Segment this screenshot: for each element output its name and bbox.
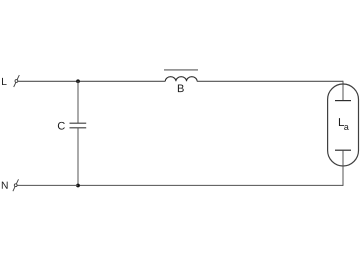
lamp label La subscript a — [344, 125, 349, 130]
junction top node — [76, 79, 80, 83]
node L (label) — [2, 78, 7, 85]
inductor B (choke with core line) — [164, 70, 198, 81]
value label C — [58, 122, 65, 130]
wire inductor to lamp corner — [197, 80, 343, 82]
lamp La envelope — [328, 84, 359, 166]
terminal N (circle with slash) — [13, 179, 19, 191]
capacitor C — [70, 123, 87, 128]
wire lamp bottom electrode down to corner — [342, 150, 344, 186]
wire junction to N terminal — [18, 184, 79, 186]
wire junction to inductor — [78, 80, 165, 82]
value label B — [178, 85, 184, 93]
wire junction down to capacitor — [77, 81, 79, 123]
wire capacitor down to bottom junction — [77, 128, 79, 186]
terminal L (circle with slash) — [14, 75, 20, 87]
lamp bottom electrode bar — [335, 149, 351, 151]
wire corner down into lamp top electrode — [342, 81, 344, 101]
lamp label La (L) — [339, 118, 344, 126]
lamp top electrode bar — [335, 100, 351, 102]
node N (label) — [2, 182, 8, 189]
junction bottom node — [76, 184, 80, 188]
wire bottom (lamp corner to junction) — [78, 184, 343, 186]
wire L terminal to junction — [18, 80, 78, 82]
